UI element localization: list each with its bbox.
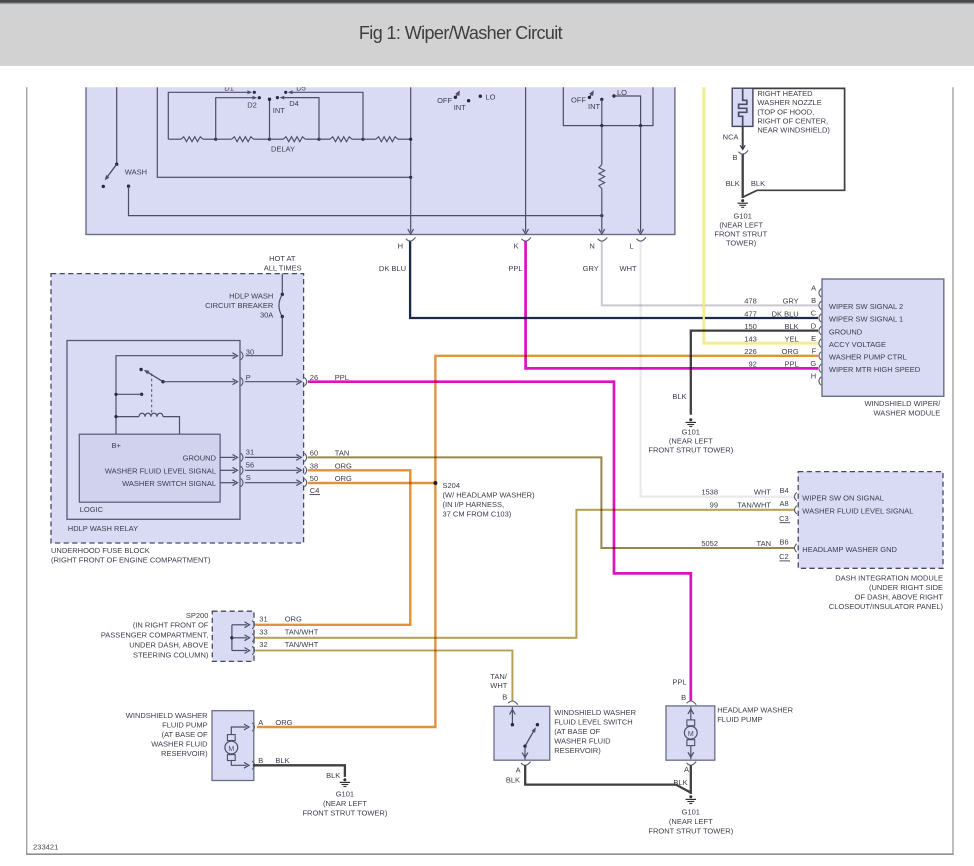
wire relay NO stub <box>116 393 142 395</box>
svg-text:G101: G101 <box>734 211 752 220</box>
svg-text:WASHER NOZZLE: WASHER NOZZLE <box>757 98 821 107</box>
connector SP200 pin 31 <box>252 621 254 629</box>
svg-text:WASHER MODULE: WASHER MODULE <box>873 408 940 417</box>
connector fuse block pin 60 <box>304 453 306 461</box>
node D4 contact <box>276 96 279 99</box>
svg-text:FRONT STRUT TOWER): FRONT STRUT TOWER) <box>648 827 733 836</box>
wire SP200 bus <box>231 625 233 651</box>
svg-text:L: L <box>629 241 633 250</box>
svg-text:FRONT STRUT: FRONT STRUT <box>714 229 767 238</box>
svg-text:1538: 1538 <box>701 487 718 496</box>
connector relay pin 31 <box>241 453 243 461</box>
node LO contact (switch 1) <box>479 95 482 98</box>
node INT top <box>268 98 271 101</box>
connector headlamp pump pin B <box>687 701 697 705</box>
svg-text:TAN/WHT: TAN/WHT <box>285 628 319 637</box>
connector DIM pin B6 <box>795 544 797 552</box>
nozzle heating element <box>739 88 747 126</box>
connector module pin B <box>819 301 821 309</box>
svg-text:PPL: PPL <box>785 360 799 369</box>
svg-text:FLUID PUMP: FLUID PUMP <box>717 715 762 724</box>
wire ORG fuse block pin 38 to SP200 pin 31 <box>255 470 410 625</box>
wash switch arm <box>106 164 116 178</box>
delay resistor network inner box <box>157 80 410 177</box>
wire D5 position <box>293 92 363 139</box>
svg-text:ORG: ORG <box>275 718 292 727</box>
svg-text:477: 477 <box>744 309 757 318</box>
wire relay pin P <box>163 381 235 383</box>
svg-text:G101: G101 <box>682 427 700 436</box>
svg-text:UNDERHOOD FUSE BLOCK: UNDERHOOD FUSE BLOCK <box>51 546 150 555</box>
svg-text:ORG: ORG <box>782 347 799 356</box>
wire TAN fuse block pin 60 to DIM pin B6 <box>308 457 795 548</box>
svg-text:ALL TIMES: ALL TIMES <box>264 264 302 273</box>
svg-text:SP200: SP200 <box>186 611 209 620</box>
svg-text:ORG: ORG <box>285 615 302 624</box>
wire headlamp pump pin A internal <box>690 746 692 760</box>
svg-text:M: M <box>688 731 694 738</box>
node L rail junction <box>639 124 642 127</box>
svg-text:D5: D5 <box>296 83 306 92</box>
wire relay pin 56 <box>220 469 235 471</box>
connector pin L of wiper switch <box>636 237 646 241</box>
svg-text:(TOP OF HOOD,: (TOP OF HOOD, <box>757 107 814 116</box>
ground G101 (headlamp pump / level switch) <box>689 795 692 798</box>
svg-text:N: N <box>589 241 594 250</box>
wire level switch pin B internal <box>511 707 513 725</box>
svg-text:WINDSHIELD WASHER: WINDSHIELD WASHER <box>126 711 208 720</box>
connector fuse block pin 38 <box>304 466 306 474</box>
wiper mode switch 2 arm <box>589 93 592 98</box>
svg-text:HEADLAMP WASHER GND: HEADLAMP WASHER GND <box>802 545 897 554</box>
wire fuse block pin 26 <box>245 381 299 383</box>
wire BLK module pin D to ground G101 <box>691 331 818 415</box>
svg-text:RESERVOIR): RESERVOIR) <box>161 749 208 758</box>
svg-text:PASSENGER COMPARTMENT,: PASSENGER COMPARTMENT, <box>101 631 209 640</box>
svg-text:DK BLU: DK BLU <box>772 309 799 318</box>
wire relay pin 30 feed <box>116 356 235 435</box>
logic module box <box>79 434 220 502</box>
svg-text:A8: A8 <box>780 499 789 508</box>
wire D1 position <box>168 92 247 139</box>
wire D2 position <box>216 98 253 140</box>
node relay arm pivot <box>161 380 164 383</box>
svg-text:C2: C2 <box>779 552 789 561</box>
svg-text:37 CM FROM C103): 37 CM FROM C103) <box>443 509 512 518</box>
node relay NO contact <box>140 393 143 396</box>
ground G101 (washer pump) <box>343 778 346 781</box>
svg-text:WINDSHIELD WASHER: WINDSHIELD WASHER <box>554 708 636 717</box>
node coil left <box>114 415 117 418</box>
resistor delay-4 <box>319 138 330 140</box>
connector DIM pin B4 <box>795 492 797 500</box>
svg-text:TAN/WHT: TAN/WHT <box>285 640 319 649</box>
svg-text:OFF: OFF <box>571 96 586 105</box>
node wash contact B <box>127 185 130 188</box>
wire GRY pin N to module pin B <box>602 242 818 306</box>
svg-text:(NEAR LEFT: (NEAR LEFT <box>669 436 713 445</box>
svg-text:D: D <box>811 321 817 330</box>
wire to pin K <box>525 80 527 232</box>
connector module pin D <box>819 326 821 334</box>
node arm pivot (switch 2) <box>588 96 591 99</box>
svg-text:HEADLAMP WASHER: HEADLAMP WASHER <box>717 705 793 714</box>
svg-text:WHT: WHT <box>490 681 507 690</box>
wire PPL pin K to module pin G <box>526 242 818 369</box>
svg-text:UNDER DASH, ABOVE: UNDER DASH, ABOVE <box>129 641 208 650</box>
connector pin N of wiper switch <box>598 237 608 241</box>
wire BLK pump pin B to ground <box>253 765 345 777</box>
svg-text:YEL: YEL <box>785 335 799 344</box>
wire N rail lower <box>601 189 603 232</box>
wire relay pin 31 <box>220 456 235 458</box>
connector headlamp pump pin A <box>687 762 697 766</box>
svg-text:FRONT STRUT TOWER): FRONT STRUT TOWER) <box>302 808 387 817</box>
headlamp pump motor M <box>684 726 697 739</box>
resistor delay-5 <box>363 138 376 140</box>
svg-text:BLK: BLK <box>673 778 687 787</box>
wire BLK level switch to ground <box>525 766 691 793</box>
svg-text:(IN I/P HARNESS,: (IN I/P HARNESS, <box>443 500 505 509</box>
svg-text:LO: LO <box>486 92 496 101</box>
connector pump pin B <box>252 761 254 769</box>
svg-text:F: F <box>812 347 817 356</box>
wire YEL accessory voltage to module pin E <box>704 87 818 343</box>
svg-text:D2: D2 <box>247 101 257 110</box>
wire BLK headlamp pump to ground <box>690 765 692 794</box>
svg-text:B6: B6 <box>780 537 789 546</box>
underhood fuse block (dashed box) <box>51 274 304 543</box>
svg-text:INT: INT <box>273 106 286 115</box>
node INT contact (switch 2) <box>600 98 603 101</box>
wire BLK nozzle housing loop <box>744 88 845 196</box>
connector relay pin P <box>241 378 243 386</box>
wiper mode switch 2 box <box>563 80 653 126</box>
wire level switch pin A internal <box>524 746 526 759</box>
node INT contact (switch 1) <box>467 99 470 102</box>
svg-text:30A: 30A <box>260 310 273 319</box>
node wash/N junction <box>600 214 603 217</box>
svg-text:33: 33 <box>259 628 267 637</box>
wire SP200 pin 31 <box>232 624 247 626</box>
svg-text:(AT BASE OF: (AT BASE OF <box>162 730 208 739</box>
connector module pin C <box>819 314 821 322</box>
wire fuse block pin 38 <box>245 469 299 471</box>
svg-text:INT: INT <box>588 102 601 111</box>
svg-text:CIRCUIT BREAKER: CIRCUIT BREAKER <box>205 301 274 310</box>
node wash contact A <box>102 185 105 188</box>
svg-text:E: E <box>811 334 816 343</box>
svg-text:INT: INT <box>454 103 467 112</box>
svg-text:WASHER PUMP CTRL: WASHER PUMP CTRL <box>829 353 907 362</box>
header band <box>0 0 974 66</box>
node D2 contact <box>258 96 261 99</box>
svg-text:(IN RIGHT FRONT OF: (IN RIGHT FRONT OF <box>133 621 209 630</box>
svg-text:HDLP WASH: HDLP WASH <box>229 292 273 301</box>
connector fuse block pin 50 <box>304 479 306 487</box>
svg-text:FLUID PUMP: FLUID PUMP <box>162 720 207 729</box>
connector relay pin S <box>241 479 243 487</box>
connector fuse block pin 26 <box>304 378 306 386</box>
svg-text:D4: D4 <box>289 99 299 108</box>
svg-text:226: 226 <box>744 347 757 356</box>
connector relay pin 56 <box>241 466 243 474</box>
svg-text:P: P <box>246 373 251 382</box>
relay switch arm <box>147 372 163 382</box>
connector module pin H <box>819 377 821 385</box>
wire INT delay centre <box>269 99 271 139</box>
wire headlamp pump pin B internal <box>690 707 692 720</box>
connector module pin F <box>819 352 821 360</box>
svg-text:B: B <box>502 693 507 702</box>
svg-text:LOGIC: LOGIC <box>80 505 104 514</box>
ground G101 (module) <box>689 418 692 421</box>
svg-text:99: 99 <box>710 501 718 510</box>
wire PPL fuse block pin 26 to headlamp washer pump <box>308 382 691 701</box>
svg-text:G: G <box>810 359 816 368</box>
wire breaker to relay pin 30 <box>246 355 283 357</box>
svg-text:BLK: BLK <box>506 776 520 785</box>
svg-text:RESERVOIR): RESERVOIR) <box>554 746 601 755</box>
wire wash signal to pin N <box>129 186 602 215</box>
dash integration module (dashed box) <box>798 472 943 569</box>
node: ladder right end <box>409 138 412 141</box>
connector level switch pin B <box>508 701 518 705</box>
svg-text:BLK: BLK <box>275 756 289 765</box>
svg-text:TAN/: TAN/ <box>490 672 507 681</box>
wire SP200 pin 32 <box>232 650 247 652</box>
circuit breaker 30A <box>281 274 283 295</box>
connector DIM pin A8 <box>795 506 797 514</box>
windshield wiper/washer module box <box>822 279 944 396</box>
svg-text:PPL: PPL <box>335 373 349 382</box>
washer pump motor M <box>225 741 238 754</box>
resistor delay-2 <box>216 138 232 140</box>
svg-text:(NEAR LEFT: (NEAR LEFT <box>323 799 367 808</box>
wire relay pin S <box>220 482 235 484</box>
connector level switch pin A <box>521 762 531 766</box>
svg-text:32: 32 <box>259 640 267 649</box>
svg-text:(W/ HEADLAMP WASHER): (W/ HEADLAMP WASHER) <box>443 490 536 499</box>
wiper mode switch 1 arm <box>455 93 458 97</box>
svg-text:TAN: TAN <box>757 539 771 548</box>
svg-text:S204: S204 <box>443 481 461 490</box>
svg-text:WINDSHIELD WIPER/: WINDSHIELD WIPER/ <box>864 399 941 408</box>
svg-text:DELAY: DELAY <box>271 145 295 154</box>
level switch arm <box>525 730 535 747</box>
svg-text:C4: C4 <box>310 486 320 495</box>
node level switch contact <box>511 723 514 726</box>
svg-text:B4: B4 <box>780 486 789 495</box>
svg-text:5052: 5052 <box>701 539 718 548</box>
svg-text:WASHER FLUID LEVEL SIGNAL: WASHER FLUID LEVEL SIGNAL <box>802 507 913 516</box>
wire D4 position <box>284 98 319 140</box>
svg-text:K: K <box>514 241 519 250</box>
page border frame <box>26 87 28 854</box>
svg-text:A: A <box>258 718 263 727</box>
wiper/washer switch assembly box <box>86 80 675 235</box>
svg-text:TAN/WHT: TAN/WHT <box>737 501 771 510</box>
svg-text:38: 38 <box>310 462 318 471</box>
resistor delay-1 <box>168 138 181 140</box>
svg-text:BLK: BLK <box>751 179 765 188</box>
svg-text:WASHER FLUID: WASHER FLUID <box>554 736 611 745</box>
node D5 contact <box>284 91 287 94</box>
svg-text:GRY: GRY <box>783 297 799 306</box>
svg-text:BLK: BLK <box>672 392 686 401</box>
node N rail junction <box>600 124 603 127</box>
svg-text:DK BLU: DK BLU <box>379 264 406 273</box>
svg-text:TAN: TAN <box>335 449 349 458</box>
svg-text:30: 30 <box>246 348 254 357</box>
svg-text:WASHER FLUID LEVEL SIGNAL: WASHER FLUID LEVEL SIGNAL <box>105 467 216 476</box>
wire N rail upper <box>601 126 603 165</box>
svg-text:HDLP WASH RELAY: HDLP WASH RELAY <box>68 524 138 533</box>
splice S204 <box>433 481 437 485</box>
svg-text:150: 150 <box>744 322 757 331</box>
connector module pin G <box>819 364 821 372</box>
svg-text:92: 92 <box>748 360 756 369</box>
svg-text:BLK: BLK <box>785 322 799 331</box>
svg-text:(AT BASE OF: (AT BASE OF <box>554 727 600 736</box>
svg-text:(UNDER RIGHT SIDE: (UNDER RIGHT SIDE <box>869 583 943 592</box>
svg-text:A: A <box>516 766 521 775</box>
svg-text:WASHER SWITCH SIGNAL: WASHER SWITCH SIGNAL <box>122 479 216 488</box>
svg-text:ACCY VOLTAGE: ACCY VOLTAGE <box>829 340 886 349</box>
relay actuation dashed link <box>151 374 153 415</box>
node LO contact (switch 2) <box>612 94 615 97</box>
svg-text:CLOSEOUT/INSULATOR PANEL): CLOSEOUT/INSULATOR PANEL) <box>829 602 944 611</box>
windshield washer fluid level switch box <box>494 706 550 760</box>
wire BLK nozzle to ground <box>742 154 744 198</box>
svg-text:WIPER SW SIGNAL 2: WIPER SW SIGNAL 2 <box>829 302 903 311</box>
svg-text:31: 31 <box>246 448 254 457</box>
connector module pin A <box>819 289 821 297</box>
wire pump pin A internal <box>231 727 246 735</box>
svg-text:FRONT STRUT TOWER): FRONT STRUT TOWER) <box>648 445 733 454</box>
HDLP wash relay box <box>67 341 240 520</box>
svg-text:B: B <box>681 693 686 702</box>
svg-text:60: 60 <box>310 449 318 458</box>
relay coil <box>116 416 139 418</box>
svg-text:B: B <box>258 756 263 765</box>
svg-text:A: A <box>684 765 689 774</box>
connector module pin E <box>819 339 821 347</box>
svg-text:D1: D1 <box>224 83 234 92</box>
headlamp washer fluid pump box <box>666 706 715 760</box>
svg-text:143: 143 <box>744 335 757 344</box>
connector SP200 pin 33 <box>252 634 254 642</box>
node arm top contact <box>536 723 539 726</box>
node SP200 junction <box>230 636 233 639</box>
connector pin K of wiper switch <box>521 237 531 241</box>
node arm pivot <box>523 745 526 748</box>
node wash arm pivot <box>115 163 118 166</box>
svg-text:26: 26 <box>310 373 318 382</box>
svg-text:BLK: BLK <box>726 179 740 188</box>
svg-text:56: 56 <box>246 461 254 470</box>
connector nozzle pin B <box>739 150 749 154</box>
svg-text:WIPER SW ON SIGNAL: WIPER SW ON SIGNAL <box>802 493 884 502</box>
svg-text:STEERING COLUMN): STEERING COLUMN) <box>133 650 209 659</box>
svg-text:(NEAR LEFT: (NEAR LEFT <box>669 817 713 826</box>
wire TAN/WHT SP200 pin 33 to DIM pin A8 <box>255 510 794 638</box>
svg-text:H: H <box>811 372 816 381</box>
svg-text:GROUND: GROUND <box>829 327 863 336</box>
svg-text:A: A <box>811 284 816 293</box>
svg-text:H: H <box>398 241 403 250</box>
wire L rail <box>640 126 642 232</box>
node inner box / H rail (top) <box>409 176 412 179</box>
resistor wiper motor feedback <box>599 165 605 189</box>
wire TAN/WHT SP200 pin 32 to fluid level switch <box>255 651 512 701</box>
svg-text:PPL: PPL <box>672 678 686 687</box>
svg-text:WIPER MTR HIGH SPEED: WIPER MTR HIGH SPEED <box>829 365 921 374</box>
title <box>0 23 921 44</box>
svg-text:G101: G101 <box>336 789 354 798</box>
wire LO contact to L rail <box>614 96 641 126</box>
right heated washer nozzle box <box>732 88 753 126</box>
connector pump pin A <box>252 723 254 731</box>
svg-text:OFF: OFF <box>437 96 452 105</box>
top dark bar <box>0 0 974 5</box>
svg-text:31: 31 <box>259 615 267 624</box>
svg-text:WASHER FLUID: WASHER FLUID <box>151 739 208 748</box>
wire DK BLU pin H to module pin C <box>410 242 818 319</box>
node relay NC contact <box>139 368 142 371</box>
svg-text:B: B <box>811 296 816 305</box>
svg-text:RIGHT OF CENTER,: RIGHT OF CENTER, <box>757 116 828 125</box>
svg-text:WHT: WHT <box>754 487 771 496</box>
svg-text:FLUID LEVEL SWITCH: FLUID LEVEL SWITCH <box>554 717 633 726</box>
svg-text:50: 50 <box>310 474 318 483</box>
svg-text:NCA: NCA <box>723 133 739 142</box>
wire ORG module pin F / S204 / washer pump <box>257 356 818 727</box>
svg-text:WHT: WHT <box>620 264 637 273</box>
svg-text:B: B <box>732 153 737 162</box>
node D1 contact <box>253 91 256 94</box>
wire pump pin B internal <box>231 761 246 766</box>
svg-text:WASH: WASH <box>125 168 147 177</box>
wire ORG fuse block pin 50 to splice S204 <box>308 482 436 484</box>
svg-text:NEAR WINDSHIELD): NEAR WINDSHIELD) <box>757 125 830 134</box>
svg-text:M: M <box>228 746 234 753</box>
svg-text:233421: 233421 <box>33 843 58 852</box>
svg-text:ORG: ORG <box>335 462 352 471</box>
windshield washer fluid pump box <box>212 711 254 781</box>
ground G101 (nozzle) <box>741 199 744 202</box>
node stub junction <box>114 393 117 396</box>
svg-text:OF DASH, ABOVE RIGHT: OF DASH, ABOVE RIGHT <box>855 592 944 601</box>
svg-text:TOWER): TOWER) <box>726 238 757 247</box>
svg-text:478: 478 <box>744 297 757 306</box>
svg-text:(NEAR LEFT: (NEAR LEFT <box>719 220 763 229</box>
svg-text:BLK: BLK <box>326 771 340 780</box>
wire fuse block pin 60 <box>245 456 299 458</box>
svg-text:GROUND: GROUND <box>183 454 217 463</box>
svg-text:PPL: PPL <box>508 264 522 273</box>
wire H rail <box>410 177 412 232</box>
wire WHT pin L to DIM pin B4 <box>641 242 795 497</box>
svg-text:DASH INTEGRATION MODULE: DASH INTEGRATION MODULE <box>835 573 943 582</box>
wire fuse block pin 50 <box>245 482 299 484</box>
connector SP200 pin 32 <box>252 646 254 654</box>
svg-text:ORG: ORG <box>335 474 352 483</box>
svg-text:RIGHT HEATED: RIGHT HEATED <box>757 89 813 98</box>
wire NCA nozzle to connector <box>742 126 744 148</box>
wire SP200 pin 33 <box>232 637 247 639</box>
svg-text:B+: B+ <box>112 441 122 450</box>
